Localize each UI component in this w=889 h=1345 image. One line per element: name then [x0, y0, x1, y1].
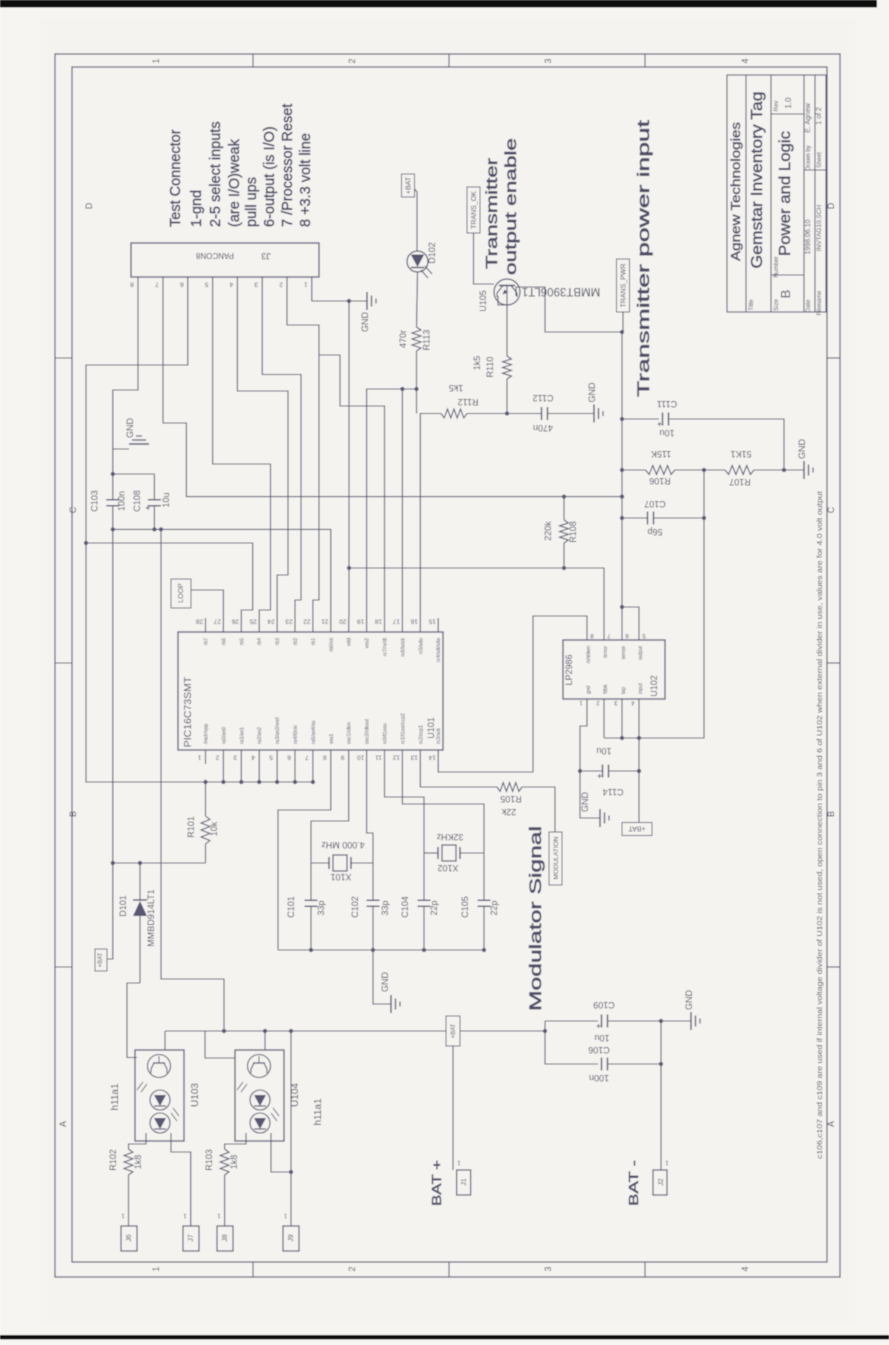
wire rail to J2: [660, 1064, 662, 1170]
svg-text:input: input: [638, 683, 644, 694]
wire C107 to divider node: [654, 517, 704, 519]
svg-text:J7: J7: [188, 1234, 195, 1242]
svg-text:D: D: [826, 202, 836, 209]
svg-text:19: 19: [357, 618, 365, 625]
capacitor C101 33p: [310, 863, 312, 900]
svg-text:1k8: 1k8: [229, 1155, 239, 1170]
svg-text:Test Connector: Test Connector: [168, 129, 184, 227]
svg-text:PANCON8: PANCON8: [195, 251, 234, 260]
svg-text:Date: Date: [806, 299, 812, 312]
resistor R112 1k5: [441, 409, 467, 418]
wire J3.1 to gnd: [312, 291, 349, 301]
wire R110 to node: [506, 379, 508, 414]
ground (crystal rail): [390, 995, 392, 1013]
wire pin11 to X102: [385, 764, 425, 853]
capacitor C114 10u: [578, 769, 582, 773]
ground (battery): [690, 1012, 692, 1030]
wire R112 to C112: [467, 413, 541, 415]
U101 pin 3 (bottom): [240, 750, 242, 764]
wire U102 input rail to +BAT: [638, 706, 640, 822]
svg-text:rb6: rb6: [221, 638, 227, 645]
svg-text:10: 10: [357, 754, 365, 761]
U101 pin 21 (top): [330, 618, 332, 632]
svg-text:R113: R113: [422, 330, 432, 351]
svg-text:5: 5: [204, 281, 208, 288]
svg-text:osc2/clkout: osc2/clkout: [365, 718, 371, 744]
capacitor C106 100n: [545, 1021, 598, 1064]
power port +BAT (left): [95, 949, 107, 971]
svg-text:rc3/sck: rc3/sck: [436, 728, 442, 744]
svg-text:1k8: 1k8: [133, 1155, 143, 1170]
svg-text:27: 27: [213, 618, 221, 625]
power port +BAT (U102): [622, 823, 652, 836]
U101 pin 19 (top): [366, 618, 368, 632]
zone tick bottom: [252, 1262, 254, 1277]
svg-text:7: 7: [155, 281, 159, 288]
svg-text:11: 11: [375, 754, 382, 761]
wire pin14 to U102 shutdown: [438, 616, 587, 772]
crystal X102 32KHz: [424, 852, 438, 854]
svg-text:tap: tap: [621, 687, 627, 694]
zone tick top: [644, 54, 646, 67]
zone tick right: [827, 966, 840, 968]
svg-text:A: A: [826, 1121, 836, 1127]
svg-text:J8: J8: [222, 1234, 229, 1242]
J3 pin 6 stub: [187, 277, 189, 291]
U102 pin 7 (top): [603, 633, 605, 640]
svg-text:2: 2: [347, 58, 357, 63]
svg-text:470n: 470n: [533, 423, 553, 433]
svg-text:osc1/clkin: osc1/clkin: [347, 722, 353, 744]
svg-text:pull ups: pull ups: [244, 177, 260, 227]
svg-text:rb4: rb4: [257, 638, 263, 645]
svg-text:B: B: [826, 811, 836, 817]
wire vss line to U102 pin7: [349, 568, 604, 633]
J3 pin 2 stub: [286, 277, 288, 291]
svg-text:rb5: rb5: [239, 638, 245, 645]
svg-text:ra4/t0cki: ra4/t0cki: [293, 725, 299, 744]
capacitor C108: [113, 473, 155, 475]
svg-text:X102: X102: [437, 863, 458, 873]
resistor R113 470r: [412, 327, 421, 351]
svg-text:16: 16: [410, 618, 418, 625]
U101 pin 8 (bottom): [330, 750, 332, 764]
capacitor C109 10u: [545, 1020, 598, 1022]
svg-text:C109: C109: [593, 1000, 615, 1010]
wire R101 to D101 junction: [113, 862, 206, 864]
capacitor C102 33p: [372, 863, 374, 900]
svg-text:GND: GND: [360, 312, 370, 333]
wire U102 gnd pin1: [580, 706, 600, 818]
ground (C112): [593, 405, 595, 423]
svg-text:rc4/sdi/sda: rc4/sdi/sda: [436, 638, 442, 662]
crystal X101 4.000 MHz: [311, 862, 329, 864]
gnd rail under crystals: [278, 949, 484, 951]
J3 pin 7 stub: [162, 277, 164, 291]
svg-text:C108: C108: [132, 490, 142, 512]
svg-text:h11a1: h11a1: [313, 1098, 324, 1126]
svg-text:3: 3: [543, 1266, 553, 1271]
svg-text:20: 20: [339, 618, 347, 625]
svg-text:1-gnd: 1-gnd: [189, 190, 205, 227]
svg-text:9: 9: [341, 754, 345, 761]
resistor R106 115K: [620, 468, 624, 472]
wire J3.5 to pin25: [213, 291, 271, 618]
zone tick right: [827, 357, 840, 359]
svg-text:51K1: 51K1: [730, 449, 751, 459]
svg-text:115K: 115K: [651, 449, 671, 459]
svg-text:rb3: rb3: [275, 638, 281, 645]
wire R103 to J8: [224, 1175, 226, 1226]
zone tick bottom: [448, 1262, 450, 1277]
svg-text:ra5/an4/ss: ra5/an4/ss: [311, 720, 317, 744]
wire divider node to U102 tap: [622, 518, 704, 738]
optocoupler U103 h11a1: [135, 1050, 184, 1141]
J3 pin 1 stub: [311, 277, 313, 291]
svg-text:GND: GND: [797, 439, 807, 460]
U101 pin 23 (top): [294, 618, 296, 632]
capacitor C112 470n: [541, 407, 543, 420]
svg-text:22p: 22p: [489, 900, 499, 915]
svg-text:GND: GND: [684, 990, 694, 1011]
svg-text:220k: 220k: [543, 521, 553, 541]
svg-text:R106: R106: [649, 476, 671, 486]
svg-text:Transmitter power input: Transmitter power input: [635, 119, 653, 397]
resistor R107 51K1: [725, 466, 754, 475]
U101 pin 25 (top): [258, 618, 260, 632]
svg-text:R108: R108: [568, 521, 578, 543]
svg-text:ra0/an0: ra0/an0: [221, 727, 227, 744]
wire to gnd (battery): [661, 1020, 691, 1022]
U102 pin 4 (bottom): [638, 699, 640, 706]
wire +BAT to J1: [452, 1046, 454, 1170]
wire pin17 up: [401, 389, 403, 618]
U101 pin 9 (bottom): [348, 750, 350, 764]
svg-text:LP2986: LP2986: [564, 654, 574, 685]
svg-text:C114: C114: [603, 787, 624, 797]
svg-text:2: 2: [215, 754, 219, 761]
svg-text:ra3/an3/vref: ra3/an3/vref: [275, 717, 281, 744]
wire TRANS_OK to base: [474, 233, 495, 284]
U103 collector pin: [164, 1031, 166, 1050]
svg-text:U105: U105: [478, 290, 488, 312]
wire trunk branch to pin26: [84, 541, 88, 545]
svg-text:Agnew Technologies: Agnew Technologies: [729, 122, 743, 261]
long left +3.3 rail down to +BAT: [107, 529, 113, 959]
resistor R110 1k5: [503, 356, 512, 379]
svg-text:INVTAG10.SCH: INVTAG10.SCH: [816, 204, 823, 251]
connector J3 PANCON8: [131, 243, 319, 277]
svg-text:17: 17: [392, 618, 400, 625]
svg-text:B: B: [778, 290, 793, 299]
svg-text:rc1/t1osi/ccp2: rc1/t1osi/ccp2: [400, 713, 406, 744]
svg-text:MMBD914LT1: MMBD914LT1: [146, 889, 156, 946]
svg-text:8 +3.3 volt line: 8 +3.3 volt line: [298, 133, 314, 227]
svg-text:5: 5: [269, 754, 273, 761]
ground (C103 area): [113, 448, 129, 450]
svg-text:Transmitter: Transmitter: [484, 157, 501, 269]
U101 pin 17 (top): [401, 618, 403, 632]
svg-text:C111: C111: [657, 399, 677, 409]
svg-text:C101: C101: [286, 896, 296, 918]
svg-text:10u: 10u: [596, 746, 611, 756]
svg-text:26: 26: [231, 618, 239, 625]
diode D101 MMBD914LT1: [139, 863, 141, 900]
U104 led pins: [245, 1133, 247, 1141]
J3 pin 4 stub: [236, 277, 238, 291]
power port +BAT (battery): [446, 1016, 460, 1046]
svg-text:56p: 56p: [647, 527, 662, 537]
svg-text:C106: C106: [588, 1045, 610, 1055]
svg-text:R103: R103: [204, 1149, 214, 1171]
U101 pin 22 (top): [312, 618, 314, 632]
wire J3.4 to pin24: [237, 291, 288, 618]
svg-text:B: B: [68, 811, 78, 817]
U101 pin 7 (bottom): [312, 750, 314, 764]
wire R113 node down to R112: [416, 389, 418, 414]
svg-text:1: 1: [197, 754, 201, 761]
svg-text:6: 6: [180, 281, 184, 288]
sheet inner border: [72, 67, 827, 1262]
wire pin10 to X101: [367, 764, 373, 863]
wire emitter to R110: [498, 296, 507, 356]
svg-text:1k5: 1k5: [472, 356, 482, 371]
svg-text:1.0: 1.0: [784, 97, 793, 109]
svg-text:C: C: [68, 506, 78, 513]
wire R102 to J6: [128, 1175, 130, 1226]
svg-text:J1: J1: [461, 1178, 468, 1186]
svg-text:rb0/int: rb0/int: [329, 637, 335, 652]
svg-text:4: 4: [740, 58, 750, 63]
U101 pin 15 (top): [437, 618, 439, 632]
svg-text:R112: R112: [458, 397, 479, 407]
svg-text:rc0/t1oso: rc0/t1oso: [383, 723, 389, 744]
svg-text:PIC16C73SMT: PIC16C73SMT: [182, 676, 194, 747]
svg-text:GND: GND: [380, 972, 390, 993]
zone tick left: [55, 662, 72, 664]
svg-text:rc5/sdo: rc5/sdo: [418, 638, 424, 655]
power port +BAT (D102): [402, 174, 415, 197]
wire R106 to R107: [675, 469, 725, 471]
U101 pin 12 (bottom): [401, 750, 403, 764]
svg-text:15: 15: [428, 618, 436, 625]
svg-text:22p: 22p: [429, 900, 439, 915]
svg-text:21: 21: [321, 618, 329, 625]
wire +BAT to caps: [460, 1030, 545, 1032]
svg-text:/error: /error: [603, 646, 609, 658]
wire J7 to U103 led2: [171, 1141, 191, 1226]
J3 pin 8 stub: [137, 277, 139, 291]
svg-text:vdd: vdd: [347, 638, 353, 646]
svg-text:+BAT: +BAT: [98, 952, 104, 967]
svg-text:U104: U104: [290, 1083, 301, 1107]
svg-text:4: 4: [229, 281, 233, 288]
svg-text:rb1: rb1: [311, 638, 317, 645]
svg-text:1: 1: [304, 281, 308, 288]
wire R105 to MODULATION: [522, 787, 555, 832]
svg-text:vss1: vss1: [329, 734, 335, 745]
svg-text:6-output (is I/O): 6-output (is I/O): [262, 126, 278, 227]
svg-text:100n: 100n: [589, 1073, 609, 1083]
svg-text:D: D: [84, 202, 94, 209]
svg-text:GND: GND: [580, 792, 590, 813]
wire J9 rail: [290, 1031, 292, 1226]
wire +3.3 rail to pin21: [113, 529, 331, 618]
U101 pin 26 (top): [240, 618, 242, 632]
U101 pin 20 (top): [348, 618, 350, 632]
svg-text:MODULATION: MODULATION: [553, 836, 560, 879]
svg-text:C: C: [826, 506, 836, 513]
U101 pin 28 (top): [205, 618, 207, 632]
net label MODULATION: [549, 832, 562, 885]
svg-text:8: 8: [130, 281, 134, 288]
capacitor C103: [112, 474, 114, 500]
svg-text:h11a1: h11a1: [110, 1083, 121, 1111]
wire pin16 to R112 row: [420, 414, 441, 619]
svg-text:7 /Processor Reset: 7 /Processor Reset: [280, 104, 296, 227]
svg-text:(are I/O)weak: (are I/O)weak: [227, 138, 243, 227]
svg-text:output: output: [638, 645, 644, 660]
svg-text:Number: Number: [774, 256, 780, 277]
wire pin12 to X102: [402, 764, 484, 853]
wire +BAT to D102: [415, 189, 418, 251]
wire opto feed: [159, 527, 163, 531]
U102 pin 2 (bottom): [603, 699, 605, 706]
svg-text:1k5: 1k5: [449, 383, 464, 393]
U102 pin 5 (top): [638, 633, 640, 640]
wire J3.7 line to trunk: [163, 291, 622, 497]
zone tick left: [55, 966, 72, 968]
svg-text:7: 7: [305, 754, 309, 761]
svg-text:GND: GND: [125, 418, 135, 439]
svg-text:TRANS_PWR: TRANS_PWR: [621, 264, 628, 308]
U101 pin 11 (bottom): [384, 750, 386, 764]
U102 pin 6 (top): [621, 633, 623, 640]
svg-text:gnd: gnd: [586, 685, 592, 694]
regulator U102 LP2986 box: [563, 640, 665, 699]
svg-text:22k: 22k: [501, 807, 516, 817]
node +3.3 rail bottom of caps: [111, 527, 115, 531]
svg-text:3: 3: [543, 58, 553, 63]
U102 pin 8 (top): [586, 633, 588, 640]
svg-text:12: 12: [392, 754, 400, 761]
wire J3.6 reset trunk: [86, 291, 206, 782]
U102 pin 1 (bottom): [586, 699, 588, 706]
wire rail to gnd: [373, 950, 391, 1004]
svg-text:R107: R107: [729, 477, 751, 487]
wire R107 to gnd: [754, 469, 804, 471]
wire collector to trunk: [516, 287, 622, 332]
U101 pin 5 (bottom): [276, 750, 278, 764]
svg-text:Drawn by: Drawn by: [806, 145, 812, 170]
svg-text:A: A: [58, 1121, 68, 1127]
svg-text:2: 2: [347, 1266, 357, 1271]
svg-text:fdbk: fdbk: [603, 684, 609, 694]
svg-text:D101: D101: [118, 895, 128, 917]
svg-text:BAT +: BAT +: [429, 1160, 444, 1206]
svg-text:3: 3: [233, 754, 237, 761]
svg-text:470r: 470r: [398, 330, 408, 348]
net label TRANS_PWR: [617, 259, 630, 312]
svg-text:TRANS_OK: TRANS_OK: [471, 191, 478, 229]
U101 pin 2 (bottom): [222, 750, 224, 764]
opto collector rail to +BAT: [165, 1030, 446, 1032]
svg-text:U102: U102: [649, 675, 659, 697]
resistor R108 220k: [562, 495, 566, 499]
resistor R101 10k: [205, 782, 207, 816]
svg-text:10u: 10u: [161, 492, 171, 507]
svg-text:/shtdwn: /shtdwn: [586, 646, 592, 663]
wire C111 to R107 node: [669, 419, 785, 470]
svg-text:+BAT: +BAT: [628, 824, 646, 831]
svg-text:LOOP: LOOP: [178, 583, 185, 603]
capacitor C107 56p: [620, 516, 624, 520]
zone tick top: [252, 54, 254, 67]
ground (J3 pin1): [347, 299, 351, 303]
svg-text:rb7: rb7: [204, 638, 210, 645]
svg-text:6: 6: [287, 754, 291, 761]
U101 pin 24 (top): [276, 618, 278, 632]
wire U102 fdbk/tap row: [603, 706, 605, 738]
U102 pin 3 (bottom): [621, 699, 623, 706]
wire TRANS_PWR trunk: [622, 312, 624, 332]
U101 pin 1 (bottom): [205, 750, 207, 764]
svg-text:24: 24: [267, 618, 275, 625]
svg-text:10k: 10k: [209, 821, 219, 836]
svg-text:GND: GND: [587, 382, 597, 403]
resistor R105 22k: [497, 783, 522, 792]
svg-text:C103: C103: [90, 490, 100, 512]
wire C112 to gnd: [548, 413, 595, 415]
svg-text:25: 25: [249, 618, 257, 625]
svg-text:R101: R101: [186, 816, 196, 838]
svg-text:28: 28: [196, 618, 204, 625]
ground (R107): [803, 461, 805, 479]
U103 led pins: [145, 1133, 147, 1141]
capacitor C111 10u: [620, 417, 624, 421]
svg-text:J9: J9: [288, 1234, 295, 1242]
net label TRANS_OK: [467, 187, 480, 233]
capacitor C104 22p: [423, 853, 425, 900]
resistor R102 1k8: [129, 1141, 147, 1149]
svg-text:+BAT: +BAT: [406, 176, 413, 194]
U101 pin 6 (bottom): [294, 750, 296, 764]
svg-text:33p: 33p: [316, 900, 326, 915]
optocoupler U104 h11a1: [235, 1050, 284, 1141]
zone tick right: [827, 662, 840, 664]
wire D101 to U103 base: [127, 983, 140, 1058]
svg-text:U103: U103: [190, 1083, 201, 1107]
svg-text:rc2/ccp1: rc2/ccp1: [418, 725, 424, 744]
svg-text:Rev: Rev: [774, 101, 780, 112]
svg-text:R110: R110: [485, 357, 495, 378]
svg-text:1: 1: [151, 58, 161, 63]
svg-text:3: 3: [254, 281, 258, 288]
zone tick top: [448, 54, 450, 67]
svg-text:13: 13: [410, 754, 418, 761]
svg-text:R105: R105: [500, 794, 522, 804]
svg-text:C105: C105: [460, 896, 470, 918]
U101 pin 27 (top): [222, 618, 224, 632]
svg-text:C102: C102: [350, 896, 360, 918]
svg-text:10u: 10u: [659, 428, 674, 438]
svg-text:/mclr/vpp: /mclr/vpp: [204, 724, 210, 745]
wire R113 to pin19: [367, 351, 417, 618]
svg-text:1: 1: [151, 1266, 161, 1271]
svg-text:X101: X101: [330, 872, 351, 882]
svg-text:2: 2: [279, 281, 283, 288]
svg-text:Title: Title: [749, 299, 755, 311]
